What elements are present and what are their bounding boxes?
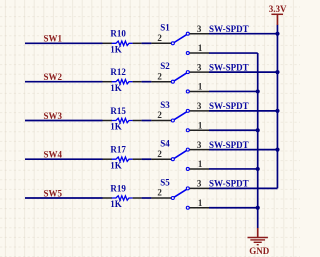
svg-text:R10: R10 [110, 29, 126, 39]
resistor R19 1K [103, 183, 142, 209]
wire 3.3V bus [276, 25, 278, 189]
wire [142, 197, 152, 199]
switch S3 SW-SPDT [151, 100, 248, 132]
wire [25, 197, 103, 199]
svg-text:1: 1 [198, 82, 203, 92]
svg-text:S4: S4 [160, 139, 170, 149]
wire [209, 168, 258, 170]
svg-text:S3: S3 [160, 100, 170, 110]
junction [256, 89, 260, 93]
svg-text:SW-SPDT: SW-SPDT [209, 140, 249, 150]
wire [209, 207, 258, 209]
svg-text:2: 2 [157, 188, 162, 198]
resistor R17 1K [103, 145, 142, 171]
svg-text:SW1: SW1 [44, 34, 63, 44]
switch S1 SW-SPDT [151, 23, 248, 55]
svg-text:SW-SPDT: SW-SPDT [209, 62, 249, 72]
wire [25, 42, 103, 44]
svg-text:SW5: SW5 [44, 188, 63, 198]
wire [25, 158, 103, 160]
svg-text:SW4: SW4 [44, 150, 63, 160]
wire [209, 129, 258, 131]
resistor R12 1K [103, 67, 142, 93]
svg-text:1K: 1K [110, 122, 122, 132]
svg-text:SW-SPDT: SW-SPDT [209, 24, 249, 34]
svg-text:3.3V: 3.3V [269, 4, 287, 14]
svg-text:3: 3 [197, 140, 202, 150]
wire [142, 158, 152, 160]
wire [25, 81, 103, 83]
svg-text:S5: S5 [160, 177, 170, 187]
power port 3.3V [269, 4, 287, 25]
svg-text:R12: R12 [110, 67, 126, 77]
wire [209, 187, 277, 189]
svg-text:2: 2 [157, 71, 162, 81]
junction [275, 109, 279, 113]
wire GND bus [257, 53, 259, 228]
wire [209, 90, 258, 92]
junction [256, 128, 260, 132]
svg-text:SW2: SW2 [44, 72, 63, 82]
svg-text:S2: S2 [160, 61, 170, 71]
svg-text:SW-SPDT: SW-SPDT [209, 101, 249, 111]
svg-text:1: 1 [198, 159, 203, 169]
svg-text:2: 2 [157, 33, 162, 43]
svg-text:2: 2 [157, 110, 162, 120]
svg-text:3: 3 [197, 179, 202, 189]
svg-text:R17: R17 [110, 145, 126, 155]
wire [142, 120, 152, 122]
junction [256, 167, 260, 171]
svg-text:R15: R15 [110, 106, 126, 116]
svg-text:1: 1 [198, 198, 203, 208]
junction [275, 148, 279, 152]
wire [142, 42, 152, 44]
junction [256, 206, 260, 210]
resistor R15 1K [103, 106, 142, 132]
svg-text:1: 1 [198, 120, 203, 130]
svg-text:GND: GND [249, 246, 269, 256]
junction [275, 70, 279, 74]
svg-text:SW3: SW3 [44, 111, 63, 121]
wire [209, 71, 277, 73]
wire [142, 81, 152, 83]
svg-text:1K: 1K [110, 83, 122, 93]
switch S4 SW-SPDT [151, 139, 248, 171]
switch S5 SW-SPDT [151, 177, 248, 209]
svg-text:1: 1 [198, 43, 203, 53]
svg-text:2: 2 [157, 149, 162, 159]
svg-text:1K: 1K [110, 199, 122, 209]
svg-text:3: 3 [197, 101, 202, 111]
wire [209, 33, 277, 35]
svg-text:3: 3 [197, 62, 202, 72]
ground GND [248, 228, 270, 256]
svg-text:3: 3 [197, 24, 202, 34]
wire [209, 149, 277, 151]
switch S2 SW-SPDT [151, 61, 248, 93]
junction [275, 32, 279, 36]
svg-text:S1: S1 [160, 23, 170, 33]
wire [209, 52, 258, 54]
wire [209, 110, 277, 112]
svg-text:1K: 1K [110, 160, 122, 170]
svg-text:R19: R19 [110, 183, 126, 193]
resistor R10 1K [103, 29, 142, 55]
svg-text:1K: 1K [110, 45, 122, 55]
wire [25, 120, 103, 122]
svg-text:SW-SPDT: SW-SPDT [209, 179, 249, 189]
